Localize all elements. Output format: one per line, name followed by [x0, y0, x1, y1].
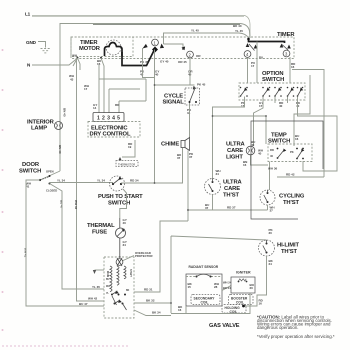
- terminal strip 1 2 3 4 5: [93, 113, 124, 122]
- option switch box: [239, 83, 305, 100]
- svg-text:TH'ST: TH'ST: [281, 249, 297, 255]
- svg-text:LIGHT: LIGHT: [226, 155, 243, 161]
- wire L1 bus top: [32, 15, 250, 38]
- svg-text:RD 34: RD 34: [130, 179, 139, 183]
- svg-text:PK: PK: [290, 150, 294, 154]
- svg-text:BK 34: BK 34: [152, 311, 161, 315]
- thermistor sensor stub: [122, 140, 135, 157]
- junction diamond under sw1: [152, 47, 158, 53]
- wire OR45 from sw2 down: [189, 58, 191, 85]
- svg-text:SWITCH: SWITCH: [262, 77, 284, 83]
- svg-text:12345: 12345: [97, 116, 122, 122]
- svg-text:BK: BK: [126, 290, 130, 292]
- svg-text:GAS VALVE: GAS VALVE: [209, 323, 240, 329]
- svg-text:IGNITER: IGNITER: [236, 271, 251, 275]
- pin WH of timer motor: [77, 57, 79, 59]
- svg-text:RD 42: RD 42: [286, 173, 295, 177]
- svg-text:RADIANT SENSOR: RADIANT SENSOR: [189, 265, 219, 269]
- motor main winding: [110, 266, 112, 292]
- motor start winding: [117, 266, 119, 285]
- svg-text:LAMP: LAMP: [31, 126, 47, 132]
- svg-text:CLOSED: CLOSED: [46, 189, 57, 193]
- svg-text:COIL: COIL: [236, 301, 244, 305]
- svg-text:HI-LIMIT: HI-LIMIT: [277, 243, 299, 249]
- svg-text:RD 31: RD 31: [144, 288, 153, 292]
- scan artifact pink dashed line: [2, 345, 130, 347]
- svg-text:SIGNAL: SIGNAL: [163, 100, 185, 106]
- wire heavy bus to sw3: [249, 39, 285, 43]
- wire cycle sig to chime: [189, 103, 191, 138]
- svg-text:ULTRA: ULTRA: [223, 180, 243, 186]
- wire WH43 down-left run: [77, 58, 105, 301]
- wire YL45 top run: [164, 33, 249, 44]
- svg-text:BK 32: BK 32: [146, 299, 155, 303]
- cam switch 3: [280, 44, 291, 57]
- wire lamp feed BU40: [254, 97, 264, 147]
- svg-text:CARE: CARE: [227, 148, 243, 154]
- svg-text:RD 37: RD 37: [227, 206, 236, 210]
- svg-text:WH 36: WH 36: [268, 167, 278, 171]
- svg-text:YL 45: YL 45: [235, 29, 243, 33]
- timer dashed enclosure: [71, 37, 294, 59]
- svg-text:GY 40: GY 40: [160, 60, 169, 64]
- secondary coil: [191, 295, 220, 305]
- svg-text:CYCLING: CYCLING: [279, 194, 305, 200]
- wire tent sw1-sw2: [164, 44, 184, 47]
- wire PU from sw4 to option: [247, 58, 249, 84]
- temp switch dashed box: [268, 144, 312, 162]
- wire N entry: [32, 59, 77, 66]
- wire option c3 stub: [274, 97, 276, 104]
- svg-text:START: START: [129, 269, 132, 277]
- svg-text:WH 41: WH 41: [24, 248, 28, 258]
- svg-text:YL 34: YL 34: [57, 179, 65, 183]
- svg-text:BN 40: BN 40: [63, 108, 67, 117]
- junction holding coil: [242, 305, 245, 308]
- svg-text:MAIN: MAIN: [106, 271, 109, 277]
- svg-text:YL 34: YL 34: [97, 179, 105, 183]
- wire option c4 down right: [298, 97, 338, 172]
- svg-text:THERMISTOR: THERMISTOR: [118, 163, 135, 167]
- svg-text:OPEN: OPEN: [46, 170, 54, 174]
- pin BK of timer motor: [100, 57, 102, 59]
- svg-text:THERMAL: THERMAL: [87, 223, 115, 229]
- svg-text:WH 24: WH 24: [223, 281, 232, 285]
- wire y236 to hi-limit: [171, 236, 267, 313]
- wire gas valve bottom: [171, 293, 250, 314]
- wire y221 step to motor: [134, 221, 188, 292]
- svg-text:L1: L1: [25, 12, 31, 17]
- svg-text:FUSE: FUSE: [92, 230, 107, 236]
- svg-text:40: 40: [270, 154, 273, 158]
- wire YL34 to push start: [50, 182, 114, 184]
- wire WH fanout: [73, 58, 80, 70]
- svg-text:PK 45: PK 45: [197, 83, 206, 87]
- wire door closed to motor YL35: [50, 184, 105, 290]
- wire y85 from center vertical: [154, 50, 156, 86]
- svg-text:DRY CONTROL: DRY CONTROL: [90, 132, 131, 138]
- svg-text:PROTECTOR: PROTECTOR: [135, 254, 153, 258]
- wire motor right BK34: [134, 310, 171, 316]
- wire heavy from motor to cam junction: [122, 50, 155, 66]
- wire RD from sw3 to option: [289, 57, 291, 83]
- wire PK from bus to option: [256, 42, 258, 84]
- motor ground: [95, 269, 105, 271]
- temp contact 2: [290, 148, 304, 160]
- console box top edge / wire BK40: [60, 24, 250, 39]
- wire PK45 from sw1 left contact: [143, 48, 155, 78]
- svg-text:PU: PU: [259, 56, 263, 60]
- svg-text:PUSH TO START: PUSH TO START: [98, 194, 143, 200]
- svg-text:DOOR: DOOR: [22, 162, 40, 168]
- junction node L1/YL45: [247, 38, 250, 41]
- electronic dry control box: [88, 122, 140, 138]
- svg-text:GND: GND: [26, 40, 37, 45]
- svg-text:WH: WH: [72, 54, 77, 58]
- wire center vertical to chime line: [154, 85, 156, 183]
- console box left edge wire BN: [59, 23, 61, 171]
- wire chime right pin down: [187, 151, 189, 222]
- wire gnd stub: [38, 42, 46, 48]
- svg-text:BU: BU: [106, 279, 110, 281]
- svg-text:BN 40: BN 40: [58, 145, 62, 154]
- wire WH41 left drop: [26, 180, 104, 306]
- svg-text:WH 42: WH 42: [88, 297, 98, 301]
- svg-text:WH: WH: [106, 286, 110, 288]
- cycle signal switch: [185, 83, 206, 116]
- option contact 1: [240, 87, 248, 97]
- wire h y116 left: [213, 116, 267, 144]
- wire push start to thermal fuse: [120, 189, 127, 218]
- electronic dry control wires: [101, 58, 104, 113]
- svg-text:YL 45: YL 45: [191, 29, 199, 33]
- svg-text:dangerous operation.: dangerous operation.: [257, 325, 299, 330]
- wire lamp bottom to temp box: [251, 155, 269, 165]
- centrifugal switch contacts: [111, 294, 113, 296]
- svg-text:BU 47: BU 47: [79, 302, 88, 306]
- svg-text:COIL: COIL: [201, 301, 209, 305]
- svg-text:TH'ST: TH'ST: [283, 200, 299, 206]
- option contact 3: [274, 87, 282, 97]
- svg-text:PK 45: PK 45: [140, 60, 149, 64]
- booster coil: [229, 295, 254, 305]
- rear panel solid box: [251, 121, 323, 219]
- overload protector symbol: [117, 258, 122, 266]
- option contact 2: [262, 87, 270, 97]
- svg-text:MOTOR: MOTOR: [79, 46, 101, 52]
- svg-text:RD: RD: [270, 148, 274, 152]
- timer motor TM: [71, 37, 133, 57]
- wire RD34 out: [121, 182, 183, 184]
- motor aux winding: [124, 266, 126, 279]
- svg-text:CHIME: CHIME: [161, 142, 179, 148]
- wire sensor to igniter: [222, 286, 231, 291]
- drive motor box: [104, 257, 134, 318]
- svg-text:ULTRA: ULTRA: [226, 142, 246, 148]
- cam switch 4: [244, 43, 257, 57]
- option contact 4: [287, 87, 295, 97]
- svg-text:WH 42: WH 42: [74, 200, 78, 210]
- holding coil: [222, 305, 246, 314]
- svg-text:TIMER: TIMER: [277, 32, 295, 38]
- svg-text:BK 40: BK 40: [233, 24, 242, 28]
- svg-text:TH'ST: TH'ST: [223, 193, 239, 199]
- scan artifact pink dots: [2, 49, 4, 331]
- wire y210 RD37: [188, 209, 268, 211]
- wire chime left pin down: [182, 148, 184, 183]
- svg-text:YL 35: YL 35: [92, 285, 100, 289]
- option contact 5: [297, 87, 304, 97]
- wire RD42: [277, 176, 324, 178]
- svg-text:CARE: CARE: [224, 186, 240, 192]
- cam switch 2: [182, 47, 202, 59]
- wire right long vertical: [292, 70, 324, 178]
- svg-text:WH43: WH43: [69, 74, 74, 81]
- svg-text:*Verify proper operation after: *Verify proper operation after servicing…: [257, 334, 335, 339]
- svg-text:OR 45: OR 45: [178, 60, 187, 64]
- cam switch 1: [143, 39, 165, 48]
- wire x310 jog: [294, 75, 310, 146]
- svg-text:BU 47: BU 47: [60, 200, 64, 209]
- wire option c1 to left drop: [213, 97, 245, 179]
- wire motor right BK32: [134, 302, 171, 304]
- temp contact 1: [270, 148, 286, 159]
- ground symbol: [41, 49, 51, 53]
- svg-text:SWITCH: SWITCH: [19, 169, 41, 175]
- wire temp down WH36: [269, 162, 271, 191]
- svg-text:BK 24: BK 24: [223, 286, 231, 290]
- wire option c4 stub: [287, 97, 289, 104]
